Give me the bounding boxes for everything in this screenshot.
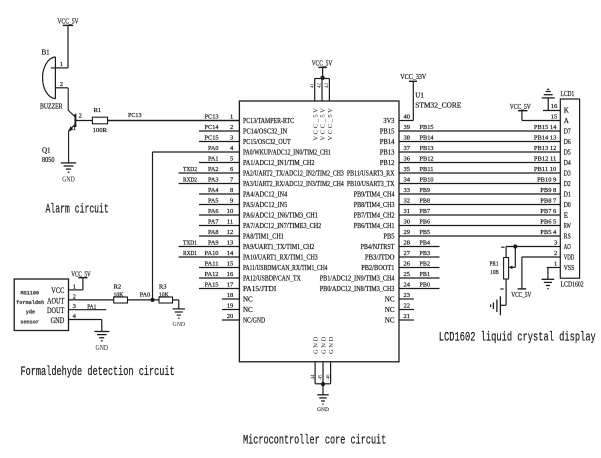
svg-text:3: 3 (230, 134, 233, 141)
svg-text:1: 1 (60, 61, 63, 68)
svg-text:LCD1: LCD1 (561, 90, 575, 98)
pin 9 D2 of LCD1 (564, 180, 571, 188)
svg-text:E: E (564, 212, 568, 220)
pin 38 PB14 right (380, 134, 561, 146)
pin 7 D0 of LCD1 (564, 201, 571, 209)
wire R3 to ground (173, 299, 179, 301)
svg-text:39: 39 (404, 124, 411, 131)
svg-text:Alarm circuit: Alarm circuit (46, 203, 109, 217)
op-amp U1 STM32_CORE body (239, 101, 399, 362)
svg-text:PC13: PC13 (128, 112, 142, 119)
svg-text:PC14: PC14 (205, 124, 220, 131)
pin 2 VDD of LCD1 (554, 250, 574, 261)
pin 14 D7 of LCD1 (564, 128, 571, 136)
svg-text:42: 42 (318, 83, 323, 89)
svg-text:PA8: PA8 (208, 229, 219, 236)
svg-text:10: 10 (227, 208, 234, 215)
svg-text:8: 8 (230, 187, 233, 194)
svg-text:GND: GND (96, 344, 109, 352)
svg-text:D2: D2 (564, 180, 571, 188)
svg-text:PB11: PB11 (420, 166, 434, 173)
svg-text:23: 23 (404, 292, 411, 299)
svg-text:VCC_5V: VCC_5V (312, 59, 333, 67)
node junction PA0/R2/R3 (150, 298, 154, 302)
pin 33 PB9 right (354, 187, 561, 199)
svg-text:formaldeh: formaldeh (16, 300, 44, 306)
potentiometer PR1 10B (490, 247, 516, 306)
pin 27 PB3 right (365, 250, 440, 262)
wire net PC13 from R1 to U1 pin1 (108, 120, 240, 122)
svg-text:PB12 11: PB12 11 (534, 155, 556, 162)
pin 34 PB10 right (347, 176, 560, 188)
wire VCC bracket top (315, 79, 330, 102)
svg-text:GND: GND (173, 321, 186, 328)
svg-text:GND: GND (62, 175, 75, 183)
svg-text:10B: 10B (490, 269, 499, 276)
wire Q1 base to R1 (75, 120, 92, 122)
svg-text:PA10/UART1_RX/TIM1_CH3: PA10/UART1_RX/TIM1_CH3 (243, 254, 318, 262)
svg-text:3V3: 3V3 (383, 117, 395, 125)
pin names VCC_5V rotated inside U1 (312, 107, 334, 141)
pin 15 A of LCD1 (551, 114, 569, 125)
svg-text:GND: GND (317, 407, 329, 413)
buzzer B1 (40, 49, 63, 111)
svg-text:PB5: PB5 (420, 229, 431, 236)
svg-text:PB0/ADC12_IN8/TIM3_CH3: PB0/ADC12_IN8/TIM3_CH3 (320, 285, 395, 293)
svg-text:PB0: PB0 (420, 281, 431, 288)
svg-text:yde: yde (26, 309, 35, 315)
pin 18 NC left (222, 292, 253, 304)
svg-text:43: 43 (325, 83, 330, 89)
svg-text:PA15/JTDI: PA15/JTDI (243, 285, 277, 293)
svg-text:MS1100: MS1100 (20, 290, 39, 296)
power VCC_5V alarm (58, 18, 79, 26)
svg-text:28: 28 (404, 239, 411, 246)
svg-text:100R: 100R (93, 127, 108, 134)
svg-text:PA1: PA1 (87, 303, 96, 310)
node VCC junction top (320, 76, 324, 80)
svg-text:PB7/TIM4_CH2: PB7/TIM4_CH2 (354, 212, 395, 220)
svg-text:PC14/OSC32_IN: PC14/OSC32_IN (243, 128, 287, 136)
svg-text:1: 1 (73, 283, 76, 290)
power VCC_33V (400, 73, 426, 82)
svg-text:VCC_33V: VCC_33V (400, 73, 426, 81)
pin 3 PC15 left (199, 134, 291, 146)
svg-text:PA1: PA1 (208, 155, 219, 162)
power VCC_5V LCD VDD (below) (511, 289, 531, 299)
pin 13 PA9 left (179, 239, 315, 251)
svg-text:RXD2: RXD2 (183, 176, 197, 183)
svg-text:GND: GND (328, 335, 335, 354)
svg-text:D1: D1 (564, 191, 571, 199)
svg-text:VCC_5V: VCC_5V (327, 107, 334, 141)
svg-text:NC: NC (243, 306, 253, 314)
svg-text:B1: B1 (42, 49, 51, 57)
svg-text:2: 2 (554, 250, 557, 257)
pin 14 PA10 left (179, 250, 319, 262)
wire R2 to R3 (128, 299, 160, 301)
svg-text:20: 20 (227, 313, 234, 320)
power VCC_5V sensor (71, 270, 91, 290)
svg-text:NC: NC (385, 306, 395, 314)
svg-text:D6: D6 (564, 138, 571, 146)
svg-text:PA5/ADC12_IN5: PA5/ADC12_IN5 (243, 201, 288, 209)
svg-text:22: 22 (404, 302, 411, 309)
svg-text:PB9/TIM4_CH4: PB9/TIM4_CH4 (354, 191, 395, 199)
pin 11 PA7 left (199, 218, 322, 230)
svg-text:K: K (564, 107, 569, 115)
svg-text:18: 18 (227, 292, 234, 299)
svg-text:VCC_5V: VCC_5V (511, 291, 531, 299)
svg-text:PB12: PB12 (380, 159, 395, 167)
wire buzzer pin1 (55, 67, 68, 69)
svg-text:2: 2 (60, 81, 63, 88)
svg-text:PA5: PA5 (208, 197, 219, 204)
svg-text:PB13: PB13 (420, 145, 434, 152)
svg-text:16: 16 (551, 103, 558, 110)
svg-text:RS: RS (564, 233, 571, 241)
svg-text:PA3: PA3 (208, 176, 219, 183)
svg-text:D7: D7 (564, 128, 571, 136)
svg-text:PB2/BOOT1: PB2/BOOT1 (361, 264, 395, 272)
svg-text:15: 15 (227, 260, 234, 267)
svg-text:PB3/JTDO: PB3/JTDO (365, 254, 395, 262)
svg-text:46: 46 (326, 374, 331, 380)
svg-text:R1: R1 (94, 107, 102, 114)
svg-text:PB7: PB7 (420, 208, 431, 215)
svg-text:45: 45 (319, 374, 324, 380)
pin 2 AOUT wire to R2 (69, 293, 114, 300)
svg-text:PB4: PB4 (420, 239, 431, 246)
svg-text:30: 30 (404, 218, 411, 225)
svg-text:PA11: PA11 (205, 260, 219, 267)
svg-text:PB1/ADC12_IN9/TIM3_CH4: PB1/ADC12_IN9/TIM3_CH4 (320, 275, 395, 283)
pin 7 PA3 left (179, 176, 345, 188)
node junction AO wiper (513, 244, 517, 248)
svg-text:NC/GND: NC/GND (243, 317, 265, 325)
svg-text:PA7/ADC12_IN7/TIME3_CH2: PA7/ADC12_IN7/TIME3_CH2 (243, 222, 322, 230)
svg-text:PB6: PB6 (420, 218, 431, 225)
svg-text:32: 32 (404, 197, 411, 204)
wire LCD pin3 AO (506, 246, 560, 248)
wire VCC_5V to LCD pin15 (521, 111, 523, 121)
svg-text:D3: D3 (564, 170, 571, 178)
svg-text:24: 24 (404, 281, 411, 288)
svg-text:PA4: PA4 (208, 187, 219, 194)
ground under R3 (173, 309, 186, 328)
svg-text:PB5: PB5 (383, 233, 395, 241)
svg-text:29: 29 (404, 229, 411, 236)
svg-text:25: 25 (404, 271, 411, 278)
svg-text:36: 36 (404, 155, 411, 162)
svg-text:Microcontroller core circuit: Microcontroller core circuit (243, 433, 386, 447)
pin 36 PB12 right (380, 155, 561, 167)
svg-text:PC13: PC13 (205, 113, 219, 120)
svg-text:PB13 12: PB13 12 (534, 145, 556, 152)
svg-text:R3: R3 (159, 283, 167, 290)
pin 4 RS of LCD1 (564, 233, 571, 241)
wire VCC_5V to buzzer pin1 (67, 25, 69, 68)
svg-text:PA4/ADC12_IN4: PA4/ADC12_IN4 (243, 191, 288, 199)
svg-text:GND: GND (51, 316, 65, 325)
pin 39 PB15 right (380, 124, 561, 136)
svg-text:PB5 4: PB5 4 (540, 229, 557, 236)
svg-text:3: 3 (554, 240, 557, 247)
pin 11 D4 of LCD1 (564, 159, 571, 167)
svg-text:PB13: PB13 (380, 149, 395, 157)
svg-text:A: A (564, 117, 569, 125)
svg-text:10K: 10K (114, 291, 124, 298)
ground under LCD VSS (542, 279, 555, 288)
pin 5 RW of LCD1 (564, 222, 571, 230)
svg-text:PB11 10: PB11 10 (534, 166, 556, 173)
pin 21 NC right (385, 313, 414, 325)
pin 4 PA0 left (153, 145, 332, 157)
svg-text:PA1/ADC12_IN1/TIM_CH2: PA1/ADC12_IN1/TIM_CH2 (243, 159, 315, 167)
svg-text:PA12/USBDP/CAN_TX: PA12/USBDP/CAN_TX (243, 275, 301, 283)
pin 40 3V3 right (383, 113, 410, 125)
svg-text:LCD1602 liquid crystal display: LCD1602 liquid crystal display (439, 331, 596, 345)
svg-text:PB3: PB3 (420, 250, 431, 257)
svg-text:PA7: PA7 (208, 218, 219, 225)
pin 22 NC right (385, 302, 414, 314)
pin 13 D6 of LCD1 (564, 138, 571, 146)
svg-text:19: 19 (227, 302, 234, 309)
svg-text:27: 27 (404, 250, 411, 257)
svg-text:LCD1602: LCD1602 (561, 281, 584, 289)
svg-text:21: 21 (404, 313, 411, 320)
wire LCD pin16 K to ground (543, 110, 560, 112)
pin 10 PA6 left (199, 208, 318, 220)
svg-text:41: 41 (310, 83, 315, 89)
pin 6 E of LCD1 (564, 212, 568, 220)
svg-text:PB11/USART3_RX: PB11/USART3_RX (347, 170, 395, 178)
svg-text:PB10: PB10 (420, 176, 434, 183)
svg-text:PB2: PB2 (420, 260, 431, 267)
svg-text:VCC_5V: VCC_5V (58, 18, 79, 26)
svg-text:PA2/UART2_TX/ADC12_IN2/TIM2_CH: PA2/UART2_TX/ADC12_IN2/TIM2_CH3 (243, 170, 344, 178)
svg-text:PB12: PB12 (420, 155, 434, 162)
svg-text:14: 14 (227, 250, 234, 257)
svg-text:PA9/UART1_TX/TIM1_CH2: PA9/UART1_TX/TIM1_CH2 (243, 243, 315, 251)
svg-text:13: 13 (227, 239, 234, 246)
svg-text:PB15 14: PB15 14 (534, 124, 557, 131)
svg-text:PA10: PA10 (205, 250, 219, 257)
pin 31 PB7 right (354, 208, 561, 220)
svg-text:12: 12 (227, 229, 234, 236)
svg-text:PB15: PB15 (420, 124, 434, 131)
svg-text:VCC_5V: VCC_5V (312, 107, 319, 141)
pin 16 K of LCD1 (551, 103, 569, 114)
svg-text:33: 33 (404, 187, 411, 194)
svg-text:AO: AO (564, 243, 571, 251)
svg-text:PB1: PB1 (420, 271, 431, 278)
svg-text:VCC_5V: VCC_5V (320, 107, 327, 141)
pin 8 D1 of LCD1 (564, 191, 571, 199)
svg-text:Formaldehyde detection circuit: Formaldehyde detection circuit (21, 365, 175, 379)
svg-text:1: 1 (554, 261, 557, 268)
resistor R2 10K (114, 283, 128, 303)
svg-text:9: 9 (230, 197, 233, 204)
svg-text:VCC: VCC (51, 286, 64, 295)
svg-text:R2: R2 (114, 283, 122, 290)
svg-text:17: 17 (227, 281, 234, 288)
svg-text:PB6/TIM4_CH1: PB6/TIM4_CH1 (354, 222, 395, 230)
svg-text:11: 11 (227, 218, 233, 225)
pin 29 PB5 right (383, 229, 560, 241)
svg-text:PA3/UART2_RX/ADC12_IN3/TIM2_CH: PA3/UART2_RX/ADC12_IN3/TIM2_CH4 (243, 180, 344, 188)
svg-text:PR1: PR1 (490, 260, 499, 267)
pin 1 VSS of LCD1 (554, 261, 574, 272)
svg-text:PA15: PA15 (205, 281, 219, 288)
svg-text:PB8/TIM4_CH3: PB8/TIM4_CH3 (354, 201, 395, 209)
svg-text:U1: U1 (415, 91, 424, 99)
svg-text:8050: 8050 (42, 156, 55, 164)
pin 4 GND wire (69, 313, 102, 332)
svg-text:PB10 9: PB10 9 (537, 176, 556, 183)
svg-text:PB15: PB15 (380, 128, 395, 136)
svg-text:D0: D0 (564, 201, 571, 209)
svg-text:PA0/WKUP/ADC12_IN0/TIM2_CH1: PA0/WKUP/ADC12_IN0/TIM2_CH1 (243, 149, 331, 157)
pin 26 PB2 right (361, 260, 439, 272)
svg-text:PB14: PB14 (380, 138, 395, 146)
wire GND bracket bottom (315, 362, 331, 384)
pin 8 PA4 left (199, 187, 288, 199)
pin 1 VCC of sensor (69, 283, 83, 290)
svg-text:PB14 13: PB14 13 (534, 134, 556, 141)
svg-text:GND: GND (321, 335, 328, 354)
svg-text:PA11/USBDM/CAN_RX/TIM1_CH4: PA11/USBDM/CAN_RX/TIM1_CH4 (243, 264, 328, 272)
svg-text:AOUT: AOUT (47, 296, 64, 305)
pin names GND rotated inside U1 (313, 335, 336, 354)
pin 28 PB4 right (361, 239, 440, 251)
svg-text:RXD1: RXD1 (183, 250, 197, 257)
power VCC_5V LCD pin15 A (510, 103, 531, 111)
svg-text:D5: D5 (564, 149, 571, 157)
pin 1 PC13 left (108, 113, 295, 125)
svg-text:NC: NC (385, 296, 395, 304)
svg-text:BUZZER: BUZZER (40, 103, 63, 111)
svg-text:37: 37 (404, 145, 411, 152)
wire buzzer pin2 (55, 87, 68, 89)
wire VCC_33V to pin40 (412, 81, 414, 120)
pin 6 PA2 left (179, 166, 345, 178)
pin 30 PB6 right (354, 218, 561, 230)
svg-text:VDD: VDD (564, 254, 575, 262)
svg-text:1: 1 (230, 113, 233, 120)
svg-text:PC15: PC15 (205, 134, 219, 141)
svg-text:44: 44 (311, 374, 316, 380)
svg-text:10K: 10K (159, 291, 169, 298)
ground above LCD (inverted) (542, 89, 555, 98)
resistor R1 100R (92, 107, 107, 134)
svg-text:RW: RW (564, 222, 571, 230)
svg-text:PA12: PA12 (205, 271, 219, 278)
U1 reference label (415, 91, 461, 109)
pin 10 D3 of LCD1 (564, 170, 571, 178)
svg-text:TXD2: TXD2 (183, 166, 197, 173)
svg-text:31: 31 (404, 208, 411, 215)
svg-text:PA6/ADC12_IN6/TIM3_CH1: PA6/ADC12_IN6/TIM3_CH1 (243, 212, 318, 220)
pin 32 PB8 right (354, 197, 561, 209)
svg-text:PA2: PA2 (208, 166, 219, 173)
pin 23 NC right (385, 292, 414, 304)
wire LCD pin1 VSS to ground (547, 267, 561, 269)
svg-text:PA0: PA0 (140, 291, 151, 298)
svg-text:PA9: PA9 (208, 239, 219, 246)
pin 5 PA1 left (199, 155, 315, 167)
svg-text:2: 2 (79, 113, 82, 120)
ground under U1 (317, 395, 329, 413)
svg-text:PC13/TAMPER-RTC: PC13/TAMPER-RTC (243, 117, 294, 125)
svg-text:PA0: PA0 (208, 145, 219, 152)
svg-text:PC15/OSC32_OUT: PC15/OSC32_OUT (243, 138, 291, 146)
svg-text:PA6: PA6 (208, 208, 219, 215)
LCD1 display body (560, 99, 579, 278)
svg-text:VCC_5V: VCC_5V (510, 103, 531, 111)
svg-text:TXD1: TXD1 (183, 239, 197, 246)
node GND junction bottom (321, 382, 325, 386)
transistor Q1 8050 (42, 88, 82, 164)
svg-text:PB6 5: PB6 5 (540, 218, 556, 225)
svg-text:NC: NC (243, 296, 253, 304)
pin numbers 44 45 46 (rotated) (311, 374, 332, 380)
pin 15 PA11 left (199, 260, 328, 272)
svg-text:D4: D4 (564, 159, 571, 167)
pin 16 PA12 left (199, 271, 301, 283)
svg-text:NC: NC (385, 317, 395, 325)
svg-text:PB9 8: PB9 8 (540, 187, 556, 194)
svg-text:sensor: sensor (20, 320, 39, 326)
pin 19 NC left (222, 302, 253, 314)
wire net PA0 vertical to U1 pin4 (152, 152, 154, 300)
svg-text:1: 1 (73, 125, 76, 132)
svg-text:PB7 6: PB7 6 (540, 208, 557, 215)
pin 2 PC14 left (199, 124, 287, 136)
pin numbers 41 42 43 (rotated) (310, 83, 330, 89)
svg-text:40: 40 (404, 113, 411, 120)
pin 37 PB13 right (380, 145, 561, 157)
svg-text:26: 26 (404, 260, 411, 267)
pin 3 AO of LCD1 (554, 240, 571, 251)
svg-text:15: 15 (551, 114, 558, 121)
pin 17 PA15 left (199, 281, 277, 293)
power VCC_5V U1 top (312, 59, 333, 78)
svg-text:PB9: PB9 (420, 187, 431, 194)
svg-text:GND: GND (313, 335, 320, 354)
pin 9 PA5 left (199, 197, 288, 209)
wire to ground symbol (322, 384, 324, 395)
svg-text:PB8 7: PB8 7 (540, 197, 557, 204)
svg-text:PB8: PB8 (420, 197, 431, 204)
svg-text:PA8/TIM1_CH1: PA8/TIM1_CH1 (243, 233, 284, 241)
ground under Q1 (61, 163, 77, 184)
ground left of PR1 (rotated) (491, 296, 501, 315)
svg-text:STM32_CORE: STM32_CORE (415, 101, 461, 109)
svg-text:PB10/USART3_TX: PB10/USART3_TX (347, 180, 395, 188)
sensor MS1100 formaldehyde (14, 279, 68, 331)
svg-text:Q1: Q1 (42, 147, 51, 155)
svg-text:16: 16 (227, 271, 234, 278)
pin 35 PB11 right (347, 166, 560, 178)
svg-text:2: 2 (230, 124, 233, 131)
ground under sensor (94, 332, 109, 353)
svg-text:VSS: VSS (564, 264, 575, 272)
pin 24 PB0 right (320, 281, 440, 293)
pin 3 DOUT wire net PA1 (69, 303, 107, 310)
svg-text:PB4/NJTRST: PB4/NJTRST (361, 243, 396, 251)
resistor R3 10K (159, 283, 173, 303)
